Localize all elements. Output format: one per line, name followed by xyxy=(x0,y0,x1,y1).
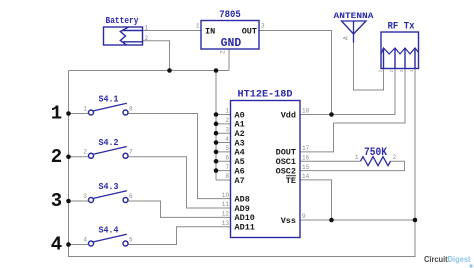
svg-text:2: 2 xyxy=(83,149,87,156)
svg-text:2: 2 xyxy=(145,35,149,42)
svg-text:1: 1 xyxy=(51,103,62,125)
switch S4.4 xyxy=(89,225,129,247)
wire TE pin14 to ground xyxy=(300,180,332,220)
svg-text:S4.2: S4.2 xyxy=(99,137,119,148)
CircuitDigest logo xyxy=(424,254,473,268)
wire resistor pin2 to OSC2 pin15 xyxy=(300,161,405,170)
junction battery negative on ground rail xyxy=(167,68,172,73)
svg-text:3: 3 xyxy=(261,23,265,30)
svg-text:3: 3 xyxy=(225,126,229,133)
wire 7805 OUT right then down to VDD node xyxy=(259,31,332,115)
junction dots on address bus A0-A6 xyxy=(214,112,219,173)
svg-text:1: 1 xyxy=(145,25,149,32)
svg-text:5: 5 xyxy=(225,145,229,152)
wire antenna to RF Tx ANT pin xyxy=(354,43,384,91)
wire switch4 left to ground rail xyxy=(69,244,89,246)
svg-text:RF Tx: RF Tx xyxy=(388,22,415,33)
svg-text:CîrcuitDigest: CîrcuitDigest xyxy=(424,254,471,264)
svg-text:7: 7 xyxy=(225,164,229,171)
wire OSC1 pin16 to resistor pin1 xyxy=(300,160,361,162)
svg-text:9: 9 xyxy=(302,213,306,220)
svg-text:4: 4 xyxy=(409,70,415,73)
battery BT1 xyxy=(104,15,143,45)
wire switch4 to HT12E AD11 pin13 xyxy=(128,227,231,245)
svg-text:18: 18 xyxy=(302,108,310,115)
junction address bus on ground rail xyxy=(214,68,219,73)
wire battery pin1 to 7805 IN xyxy=(143,30,202,32)
svg-text:S4.3: S4.3 xyxy=(99,181,119,192)
svg-text:4: 4 xyxy=(225,136,229,143)
svg-text:10: 10 xyxy=(222,192,230,199)
svg-text:6: 6 xyxy=(225,154,229,161)
svg-text:6: 6 xyxy=(129,193,133,200)
svg-text:Vss: Vss xyxy=(281,216,296,226)
svg-text:7805: 7805 xyxy=(219,10,241,21)
resistor R1 750K xyxy=(361,147,391,166)
switch S4.2 xyxy=(89,137,129,159)
switch S4.1 xyxy=(89,94,129,116)
svg-text:4: 4 xyxy=(51,234,62,256)
HT12E pin numbers right 18,17,16,15,14,9 xyxy=(302,108,310,221)
svg-text:Vdd: Vdd xyxy=(281,110,296,120)
svg-text:12: 12 xyxy=(222,211,230,218)
junction TE to VSS xyxy=(329,218,334,223)
svg-text:Battery: Battery xyxy=(106,15,139,26)
wire battery pin2 to ground rail xyxy=(143,41,170,71)
svg-text:ANTENNA: ANTENNA xyxy=(334,11,375,21)
junction VDD node xyxy=(329,112,334,117)
svg-text:14: 14 xyxy=(302,173,310,180)
switch S4.3 xyxy=(89,181,129,203)
wire switch1 left to ground rail xyxy=(69,113,89,115)
svg-text:TE: TE xyxy=(286,176,296,186)
voltage regulator 7805 xyxy=(201,10,259,50)
svg-text:1: 1 xyxy=(225,108,229,115)
encoder IC HT12E-18D xyxy=(231,90,301,238)
svg-text:7: 7 xyxy=(129,149,133,156)
svg-text:A: A xyxy=(343,36,350,40)
svg-text:OUT: OUT xyxy=(242,26,257,36)
svg-text:1: 1 xyxy=(355,154,359,161)
ground return wire: RF Tx pin4 down, bottom rail, left rail up xyxy=(69,69,416,257)
junction VSS to RF ground xyxy=(413,218,418,223)
svg-text:8: 8 xyxy=(129,105,133,112)
RF transmitter module RF Tx xyxy=(381,22,419,69)
svg-text:2: 2 xyxy=(393,154,397,161)
svg-text:3: 3 xyxy=(399,70,405,73)
wire switch2 left to ground rail xyxy=(69,156,89,158)
wire VSS pin9 to RF Tx ground pin xyxy=(300,219,415,221)
svg-text:HT12E-18D: HT12E-18D xyxy=(238,90,293,101)
svg-text:1: 1 xyxy=(196,23,200,30)
svg-text:2: 2 xyxy=(225,117,229,124)
junction dots ground rail at switches xyxy=(66,111,71,247)
svg-text:2: 2 xyxy=(51,146,62,168)
wire DOUT pin17 to RF Tx DATA pin xyxy=(300,69,405,152)
svg-text:3: 3 xyxy=(83,193,87,200)
svg-text:2: 2 xyxy=(389,70,395,73)
svg-text:11: 11 xyxy=(222,201,230,208)
ground rail wire (battery- / 7805 GND / address bus) xyxy=(69,70,230,72)
svg-text:3: 3 xyxy=(51,190,62,212)
svg-text:17: 17 xyxy=(302,145,310,152)
address bus A0-A7 to ground rail xyxy=(215,71,217,180)
wire VDD: HT12E pin18 to RF Tx VCC pin xyxy=(300,69,395,115)
svg-text:13: 13 xyxy=(222,220,230,227)
antenna xyxy=(334,11,375,43)
wire switch3 to HT12E AD10 pin12 xyxy=(128,201,231,217)
HT12E pin stubs A0-A7 xyxy=(216,115,231,180)
svg-text:S4.1: S4.1 xyxy=(99,94,119,105)
svg-text:A7: A7 xyxy=(235,176,245,186)
svg-text:8: 8 xyxy=(225,173,229,180)
svg-text:16: 16 xyxy=(302,154,310,161)
svg-text:4: 4 xyxy=(83,236,87,243)
svg-text:GND: GND xyxy=(221,36,242,50)
svg-text:5: 5 xyxy=(129,236,133,243)
wire switch2 to HT12E AD9 pin11 xyxy=(128,157,231,208)
wire switch3 left to ground rail xyxy=(69,200,89,202)
svg-text:1: 1 xyxy=(378,70,384,73)
HT12E pin numbers left 1-8 and 10-13 xyxy=(222,108,230,227)
RF Tx pin numbers xyxy=(378,70,416,73)
svg-text:IN: IN xyxy=(205,26,215,36)
svg-text:2: 2 xyxy=(220,50,227,54)
svg-text:AD11: AD11 xyxy=(235,223,255,233)
svg-text:1: 1 xyxy=(83,105,87,112)
svg-text:S4.4: S4.4 xyxy=(99,225,119,236)
wire switch1 to HT12E AD8 pin10 xyxy=(128,114,231,199)
wire 7805 GND pin2 down to ground rail xyxy=(228,49,230,71)
svg-text:15: 15 xyxy=(302,164,310,171)
